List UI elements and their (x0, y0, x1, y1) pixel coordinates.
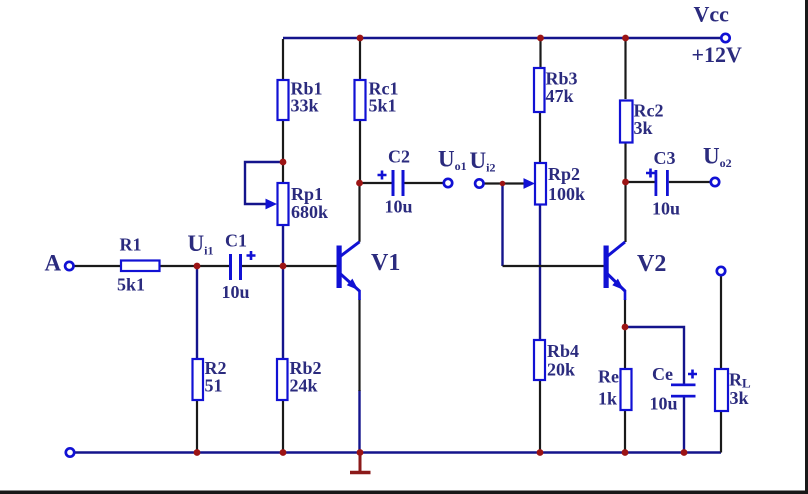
svg-text:R1: R1 (120, 235, 142, 255)
svg-text:33k: 33k (291, 96, 319, 116)
svg-text:Ce: Ce (652, 364, 673, 384)
svg-text:3k: 3k (730, 388, 749, 408)
svg-text:5k1: 5k1 (117, 275, 145, 295)
svg-text:V1: V1 (371, 250, 400, 276)
svg-text:V2: V2 (637, 251, 666, 277)
svg-text:47k: 47k (546, 86, 574, 106)
svg-text:Rp2: Rp2 (548, 164, 580, 184)
svg-text:+12V: +12V (692, 42, 743, 67)
svg-text:10u: 10u (650, 394, 678, 414)
svg-text:5k1: 5k1 (369, 96, 397, 116)
svg-text:Re: Re (598, 367, 619, 387)
svg-text:100k: 100k (548, 184, 585, 204)
svg-text:3k: 3k (634, 118, 653, 138)
svg-text:24k: 24k (290, 376, 318, 396)
svg-text:10u: 10u (222, 282, 250, 302)
svg-text:10u: 10u (652, 199, 680, 219)
svg-text:10u: 10u (385, 197, 413, 217)
svg-text:1k: 1k (598, 389, 617, 409)
svg-text:C3: C3 (654, 148, 676, 168)
svg-text:A: A (45, 251, 62, 276)
svg-text:Vcc: Vcc (694, 2, 730, 27)
svg-text:20k: 20k (547, 360, 575, 380)
svg-text:680k: 680k (291, 202, 328, 222)
svg-text:51: 51 (205, 376, 223, 396)
svg-text:C2: C2 (388, 147, 410, 167)
svg-text:Rp1: Rp1 (291, 184, 323, 204)
svg-text:C1: C1 (225, 231, 247, 251)
svg-text:Rb4: Rb4 (547, 341, 579, 361)
